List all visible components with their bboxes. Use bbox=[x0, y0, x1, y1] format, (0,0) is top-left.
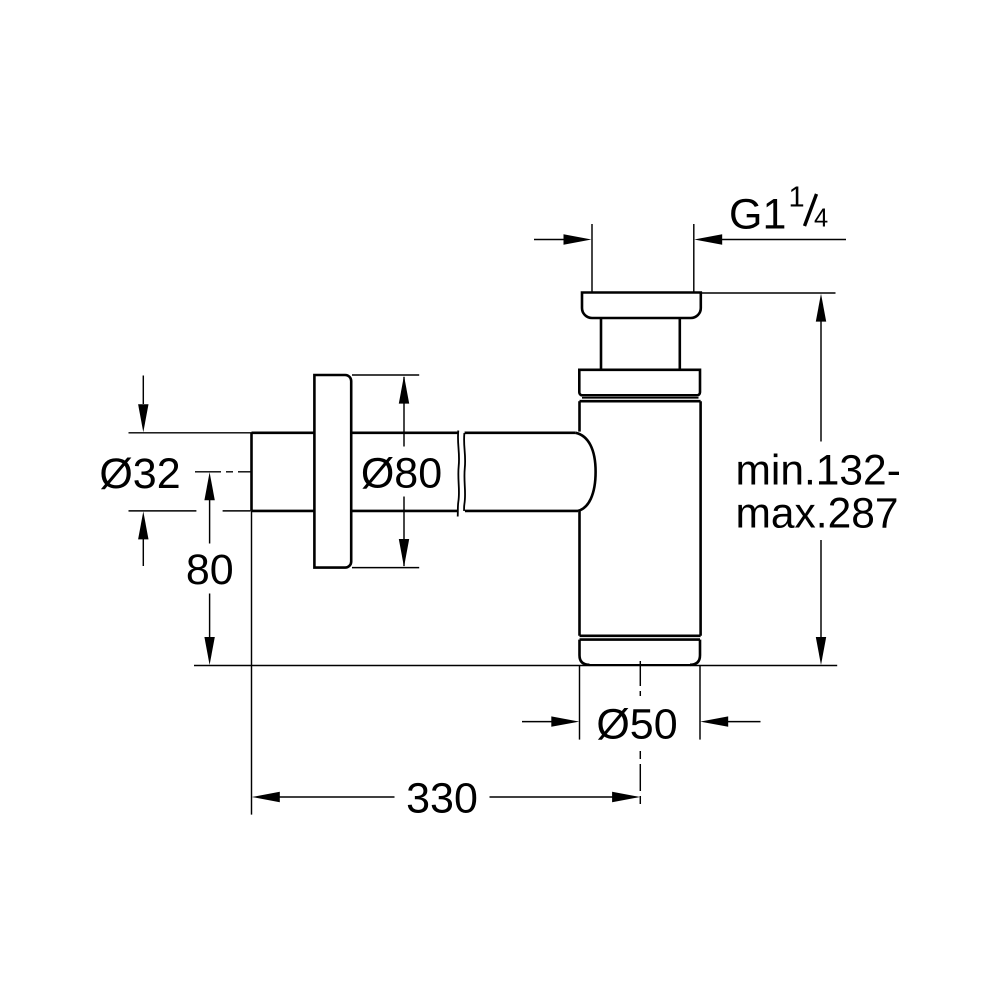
neck left wall bbox=[600, 318, 603, 370]
dia50 arrow left shaft bbox=[522, 721, 552, 723]
pipe-to-body bulge bbox=[576, 433, 596, 511]
pipe break wavy line right bbox=[464, 433, 465, 511]
dia32 bottom extension line right segment bbox=[223, 510, 251, 512]
neck right wall bbox=[678, 318, 681, 370]
cap top line bbox=[580, 638, 701, 641]
svg-text:330: 330 bbox=[406, 774, 478, 822]
dia80 bottom extension line bbox=[352, 567, 419, 569]
pipe bottom edge segment 1 bbox=[252, 510, 315, 513]
bottom cap left side bbox=[580, 640, 590, 665]
wall flange bbox=[314, 375, 351, 568]
svg-text:Ø50: Ø50 bbox=[596, 701, 677, 749]
body right wall bbox=[699, 401, 702, 636]
dia32 arrow top shaft bbox=[142, 376, 144, 405]
dim80 shaft lower bbox=[209, 594, 211, 639]
body left wall lower segment bbox=[578, 511, 581, 636]
body centerline upper segment bbox=[639, 661, 641, 696]
label fraction slash bbox=[805, 194, 817, 226]
dia50 arrowhead right-pointing bbox=[551, 716, 579, 726]
svg-text:max.287: max.287 bbox=[736, 491, 899, 538]
svg-text:1: 1 bbox=[789, 182, 805, 214]
dia80 arrowhead up bbox=[399, 376, 409, 404]
dia80 dimension shaft upper bbox=[403, 377, 405, 447]
bottom cap bottom edge bbox=[588, 664, 692, 666]
dia32 bottom extension line left segment bbox=[129, 510, 197, 512]
svg-text:G1: G1 bbox=[729, 190, 786, 238]
svg-text:Ø80: Ø80 bbox=[361, 450, 442, 498]
dia32 arrowhead up bbox=[138, 511, 148, 539]
dia80 dimension shaft lower bbox=[403, 497, 405, 567]
body centerline lower segment bbox=[639, 751, 641, 807]
dia80 top extension line bbox=[352, 374, 419, 376]
pipe top edge segment 3 bbox=[465, 431, 576, 434]
dia50 extension line right bbox=[699, 666, 701, 740]
pipe bottom edge segment 2 bbox=[351, 510, 458, 513]
G1 1/4 dimension arrow left shaft bbox=[534, 239, 564, 241]
pipe break wavy line left bbox=[458, 431, 459, 517]
dim80 arrowhead up bbox=[204, 472, 214, 500]
dia80 arrowhead down bbox=[399, 539, 409, 567]
min-max arrowhead down bbox=[816, 637, 826, 665]
dia50 arrow right shaft bbox=[728, 721, 761, 723]
body top edge bbox=[580, 400, 701, 403]
dim330 shaft left bbox=[280, 796, 395, 798]
pipe left end cap bbox=[250, 433, 253, 511]
dim330 arrowhead left-pointing bbox=[252, 792, 280, 802]
pipe top edge segment 1 bbox=[252, 431, 315, 434]
svg-text:80: 80 bbox=[186, 546, 234, 594]
dia32 top extension line bbox=[129, 432, 252, 434]
pipe top edge segment 2 bbox=[351, 431, 457, 434]
dim330 left extension line bbox=[251, 511, 253, 815]
min-max dimension shaft upper bbox=[820, 321, 822, 442]
dim330 shaft right bbox=[490, 796, 613, 798]
dia50 arrowhead left-pointing bbox=[700, 716, 728, 726]
inlet extension line left bbox=[591, 224, 593, 293]
top flange bbox=[582, 293, 701, 319]
body left wall upper segment bbox=[578, 401, 581, 431]
G1 1/4 dimension arrow right shaft bbox=[722, 239, 847, 241]
G1 1/4 dimension arrowhead left bbox=[564, 234, 592, 244]
dia32 arrow bottom shaft bbox=[142, 539, 144, 566]
min-max arrowhead up bbox=[816, 294, 826, 322]
G1 1/4 dimension arrowhead right bbox=[694, 234, 722, 244]
min-max dimension shaft lower bbox=[820, 540, 822, 638]
dim330 arrowhead right-pointing bbox=[612, 792, 640, 802]
bottom reference line bbox=[194, 665, 837, 667]
svg-text:min.132-: min.132- bbox=[736, 448, 901, 495]
nut bbox=[579, 370, 700, 396]
inlet extension line right bbox=[693, 224, 695, 293]
dim80 arrowhead down bbox=[204, 637, 214, 665]
dia32 arrowhead down bbox=[138, 404, 148, 432]
pipe centerline bbox=[195, 471, 251, 473]
bottom cap right side bbox=[690, 640, 700, 665]
svg-text:4: 4 bbox=[814, 205, 828, 233]
min-max top reference line bbox=[701, 292, 836, 294]
dim80 shaft upper bbox=[209, 500, 211, 544]
pipe bottom edge segment 3 bbox=[465, 510, 578, 513]
body bottom edge bbox=[580, 634, 701, 637]
dia50 extension line left bbox=[579, 666, 581, 740]
svg-text:Ø32: Ø32 bbox=[99, 450, 180, 498]
rim line under nut bbox=[582, 397, 699, 399]
